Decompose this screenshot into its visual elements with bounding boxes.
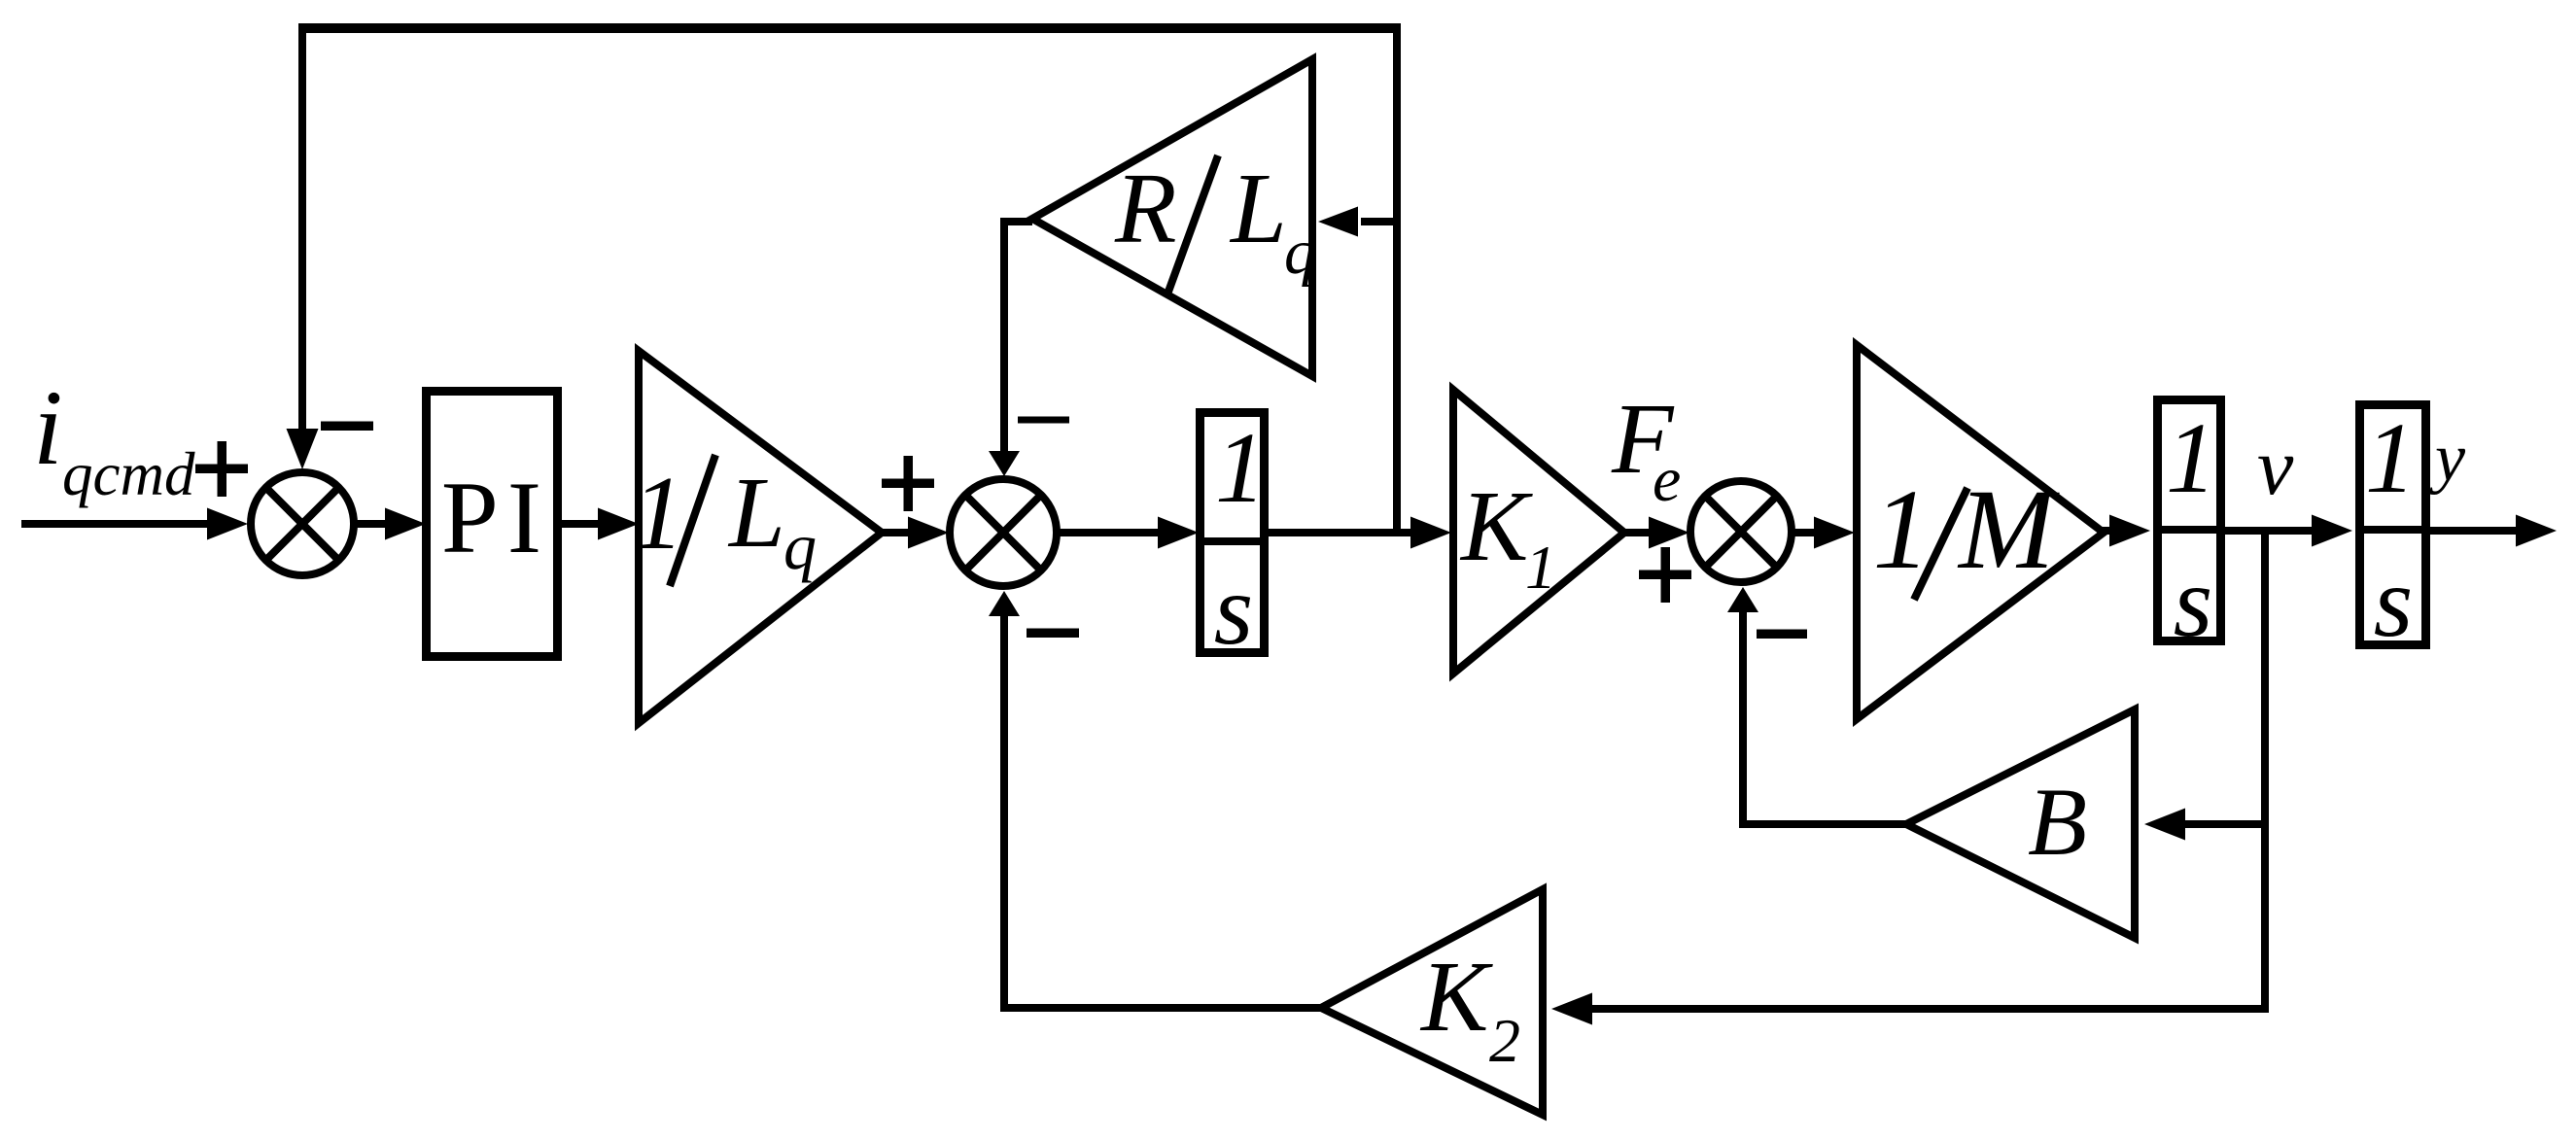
- wire R/Lq tip stub: [1000, 218, 1032, 225]
- svg-text:PI: PI: [441, 461, 550, 574]
- wire input line: [21, 520, 211, 528]
- svg-text:1: 1: [1525, 533, 1556, 602]
- fraction bar integrator1: [1204, 537, 1260, 545]
- svg-text:B: B: [2028, 768, 2087, 876]
- svg-text:1: 1: [632, 456, 684, 571]
- svg-text:K: K: [1459, 470, 1533, 582]
- svg-text:i: i: [33, 368, 63, 487]
- wire gain 1/M tip to integrator2: [2102, 527, 2112, 535]
- arrowhead into gain 1/Lq: [598, 508, 639, 540]
- gain triangle K1: [1453, 390, 1624, 674]
- block PI box: [427, 392, 558, 657]
- svg-text:v: v: [2257, 422, 2294, 512]
- fraction bar integrator3: [2364, 526, 2421, 534]
- arrowhead K2 output into sum2 bottom: [989, 591, 1020, 616]
- svg-text:1: 1: [1215, 412, 1266, 524]
- wire gain 1/Lq tip to sum2: [880, 529, 912, 536]
- svg-text:L: L: [1229, 153, 1287, 264]
- svg-text:q: q: [1284, 217, 1316, 288]
- summing junction sum1: [251, 472, 354, 575]
- arrowhead into sum2 left: [908, 517, 949, 549]
- block integrator 1/s #2 box: [2158, 400, 2221, 641]
- minus sign at sum1 top input: [321, 422, 373, 432]
- arrowhead gain B output into sum3 bottom: [1727, 587, 1758, 612]
- wire sum1 to PI: [356, 520, 389, 528]
- arrowhead R/Lq output into sum2 top: [989, 451, 1020, 476]
- svg-text:2: 2: [1489, 1006, 1520, 1075]
- arrowhead into integrator2: [2109, 515, 2150, 547]
- svg-text:qcmd: qcmd: [62, 440, 195, 508]
- svg-text:M: M: [1957, 466, 2060, 593]
- wire sum2 to integrator 1/s #1: [1059, 529, 1160, 536]
- fraction bar integrator2: [2162, 526, 2216, 534]
- wire PI to gain 1/Lq: [562, 520, 602, 528]
- wire from top-loop vertical into R/Lq input: [1361, 218, 1401, 225]
- svg-text:1: 1: [2365, 402, 2416, 514]
- summing junction sum2: [950, 479, 1057, 586]
- gain triangle 1/Lq: [639, 351, 882, 723]
- svg-text:q: q: [783, 509, 817, 583]
- arrowhead top feedback into sum1: [287, 429, 319, 469]
- arrowhead output y: [2516, 515, 2557, 547]
- minus sign at sum3 bottom input: [1757, 630, 1807, 640]
- wire integrator3 to output y: [2428, 527, 2517, 535]
- wire node v branch down: [2261, 527, 2269, 1009]
- wire gain K2 output up to sum2: [1000, 612, 1008, 1012]
- block integrator 1/s #3 box: [2360, 405, 2426, 645]
- svg-text:e: e: [1653, 444, 1681, 515]
- wire sum3 to gain 1/M: [1793, 529, 1817, 536]
- wire gain B output left: [1739, 820, 1908, 828]
- wire integrator1 to gain K1 (junction with top loop at x=1437): [1269, 529, 1413, 536]
- minus sign at sum2 top input: [1018, 417, 1069, 424]
- svg-text:1: 1: [1873, 466, 1931, 593]
- wire top feedback right vertical drop: [1393, 25, 1401, 535]
- wire gain B output up to sum3: [1739, 608, 1747, 828]
- slash of 1/M: [1914, 488, 1967, 600]
- arrowhead into gain B input (left pointing): [2144, 809, 2185, 841]
- arrowhead into integrator3: [2312, 515, 2352, 547]
- arrowhead into sum3 left: [1649, 517, 1689, 549]
- wire bottom feedback to gain K2 input: [1592, 1005, 2269, 1013]
- minus sign at sum2 bottom input: [1027, 629, 1079, 639]
- gain triangle 1/M: [1857, 345, 2104, 719]
- wire top feedback horizontal: [298, 23, 1401, 33]
- plus sign at sum1 input: [195, 465, 248, 474]
- block integrator 1/s #1 box: [1201, 413, 1265, 653]
- svg-text:L: L: [727, 457, 785, 569]
- gain triangle R/Lq (left pointing): [1032, 59, 1312, 376]
- svg-text:y: y: [2429, 421, 2466, 496]
- arrowhead into integrator1: [1158, 517, 1199, 549]
- arrowhead into gain K1: [1410, 517, 1451, 549]
- arrowhead into gain K2 input (left pointing): [1551, 993, 1592, 1025]
- svg-text:s: s: [2174, 546, 2212, 658]
- wire integrator2 to integrator3 (node v, junction at x=2330): [2223, 527, 2315, 535]
- summing junction sum3: [1690, 481, 1792, 582]
- wire gain K1 tip to sum3: [1622, 529, 1651, 536]
- plus sign at sum2 left input: [882, 479, 934, 489]
- arrowhead into R/Lq input (left pointing): [1318, 207, 1358, 237]
- slash of 1/Lq: [670, 455, 715, 586]
- wire gain K2 output left: [1000, 1004, 1323, 1012]
- svg-text:s: s: [1214, 554, 1253, 666]
- wire top feedback left vertical drop: [298, 25, 306, 432]
- wire R/Lq output down to sum2: [1000, 218, 1008, 455]
- gain triangle K2 (left pointing): [1321, 889, 1543, 1115]
- svg-text:K: K: [1419, 941, 1493, 1053]
- svg-text:R: R: [1114, 153, 1177, 264]
- wire branch to gain B input: [2185, 820, 2261, 828]
- arrowhead input into sum1: [207, 508, 248, 540]
- svg-text:s: s: [2374, 546, 2413, 658]
- arrowhead into PI: [385, 508, 426, 540]
- slash of R/Lq: [1168, 156, 1218, 292]
- gain triangle B (left pointing): [1906, 709, 2135, 938]
- plus sign at sum3 left input: [1639, 570, 1691, 580]
- svg-text:1: 1: [2166, 402, 2216, 514]
- arrowhead into gain 1/M: [1814, 517, 1855, 549]
